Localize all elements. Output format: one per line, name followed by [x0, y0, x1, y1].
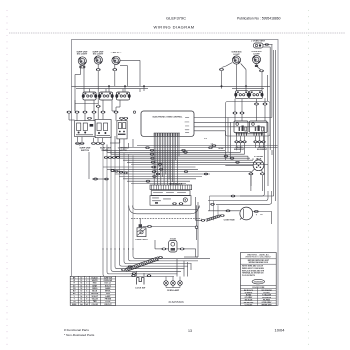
connector ovals above relays	[254, 103, 258, 105]
svg-text:PLUG IN PARTS: PLUG IN PARTS	[242, 274, 256, 277]
wires connector row to blocks	[69, 113, 126, 120]
oven light connector oval	[147, 225, 151, 227]
L1 terminal block	[80, 66, 85, 68]
surface switch S4	[234, 91, 249, 99]
connector oval below L2	[96, 69, 100, 71]
loop wires below door box	[133, 206, 200, 210]
pilot light L2 label	[92, 51, 104, 55]
pilot light L2	[94, 56, 102, 64]
svg-text:BAKE: BAKE	[105, 287, 111, 290]
svg-text:WIRES PRIOR TO DISCONNECT: WIRES PRIOR TO DISCONNECT	[245, 257, 271, 259]
svg-text:COLOR: COLOR	[91, 304, 98, 306]
door lock feeds	[137, 271, 144, 276]
surface switch S3	[115, 92, 130, 100]
connector row P3	[75, 142, 79, 144]
band2 left wire	[196, 219, 202, 221]
connector oval below L3	[113, 69, 117, 71]
svg-text:TERM BLOCK: TERM BLOCK	[169, 183, 183, 185]
node vertical wire	[196, 205, 198, 240]
svg-text:GLEF379C: GLEF379C	[166, 16, 186, 21]
terminal strip box TB2	[151, 191, 190, 196]
L4 right drop wire	[241, 64, 246, 91]
wires switches to relays	[235, 98, 265, 121]
oven light label	[135, 239, 148, 241]
bus junction dots	[108, 85, 223, 87]
wires B3 down	[110, 139, 124, 146]
svg-text:WIRING DIAGRAM 30 IN: WIRING DIAGRAM 30 IN	[249, 261, 269, 264]
probe jack J1	[253, 160, 264, 171]
svg-text:OVEN LIGHT: OVEN LIGHT	[135, 239, 148, 241]
connector oval left of L4	[219, 68, 223, 70]
svg-text:WH/BK-WHT: WH/BK-WHT	[261, 305, 272, 307]
svg-text:10/04: 10/04	[275, 327, 286, 332]
connector row P2	[87, 117, 91, 119]
scan artifact right dotted line	[308, 10, 310, 345]
header separator dashed line	[9, 32, 345, 34]
horizontal run ovals	[131, 275, 135, 277]
wire S2 center	[97, 107, 99, 119]
bus wire B	[76, 88, 264, 90]
pilot light L4 (oven signal)	[232, 56, 240, 64]
svg-text:OVEN LAMP: OVEN LAMP	[167, 289, 180, 292]
motor right vertical stub	[271, 212, 273, 225]
svg-text:4: 4	[86, 284, 87, 287]
connector oval mid (under S2)	[96, 105, 100, 107]
probe jack label	[254, 156, 264, 160]
wire L1 down-left to switch S1	[75, 68, 84, 111]
verticals from P3 into bundle	[103, 136, 120, 158]
wires relays to lower ovals	[237, 136, 264, 141]
svg-text:SIG LIGHT: SIG LIGHT	[77, 54, 88, 56]
svg-text:ELEMENT: ELEMENT	[257, 149, 268, 151]
svg-text:14: 14	[80, 295, 82, 298]
bundle entry ovals	[93, 178, 97, 180]
oven light component	[137, 224, 146, 236]
motor label	[256, 213, 264, 217]
wire L3 down	[114, 65, 116, 87]
svg-text:WIRING DIAGRAM: WIRING DIAGRAM	[154, 25, 195, 30]
connector oval right of L5	[259, 70, 263, 72]
bundle connector ovals cluster	[104, 157, 108, 159]
svg-text:316255306: 316255306	[168, 300, 184, 304]
right bundle horizontal stubs	[265, 122, 269, 191]
relay comb terminals	[236, 133, 264, 136]
switch block B1 (surface unit switch)	[75, 121, 96, 137]
surface switch S5	[248, 91, 263, 99]
bundle bottom curves to horizontals	[103, 248, 210, 277]
thermal fuse TCO	[169, 241, 177, 253]
svg-text:CONV FAN: CONV FAN	[224, 218, 235, 221]
electronic oven control EOC box	[141, 111, 194, 136]
switch feed stubs	[90, 89, 124, 92]
EOC right exit wires	[194, 118, 272, 131]
middle fan horizontal wires	[103, 146, 278, 184]
door lock switch zigzag	[137, 278, 144, 285]
bake relay K1	[234, 121, 248, 133]
relay container outline	[226, 102, 271, 137]
pilot light L1 label	[76, 51, 88, 55]
pilot light L5 label	[251, 51, 261, 55]
pilot light L3	[112, 56, 120, 64]
lamp feed verticals	[177, 257, 198, 277]
S1-S2 link wire	[75, 103, 98, 105]
svg-text:CIRCUIT: CIRCUIT	[104, 304, 112, 306]
svg-text:LOCK SW: LOCK SW	[135, 288, 145, 290]
node circle right of P1	[133, 111, 135, 113]
warning notes box	[241, 253, 277, 307]
bus wire A (L1 feed)	[72, 85, 271, 87]
relay lower connector ovals	[235, 141, 239, 143]
fan right verticals	[225, 118, 253, 187]
switch block B3 (oven selector)	[117, 121, 127, 139]
fan connector ovals	[145, 147, 149, 149]
svg-text:LAMP: LAMP	[105, 295, 111, 298]
EOC connector comb	[154, 132, 180, 134]
extra stub wires	[109, 86, 222, 92]
pilot light L5	[252, 55, 260, 63]
pilot light L3 label	[111, 52, 123, 54]
fuse wires	[155, 240, 196, 257]
wire bundle between blocks and fan area	[89, 139, 133, 179]
broil relay K2	[250, 121, 268, 133]
pilot light L1 (surface unit signal)	[78, 57, 86, 65]
scan artifact left dotted line	[6, 10, 8, 345]
wire L5 down to switch S5	[255, 64, 262, 91]
bus junction dot right	[245, 85, 247, 87]
wires blocks to P3	[76, 137, 103, 146]
wiring legend table	[70, 276, 115, 306]
dashed ground wire	[131, 218, 202, 220]
EOC pin labels right	[185, 116, 189, 119]
surface switch S1	[82, 92, 97, 100]
svg-text:# OVEN VENT: # OVEN VENT	[251, 41, 265, 43]
junction node circle	[195, 226, 198, 229]
svg-text:ELEMENT: ELEMENT	[234, 149, 245, 151]
wire L3 right branch	[120, 60, 140, 86]
extra fan ovals	[158, 163, 162, 165]
band1 end ovals	[121, 269, 125, 271]
oven vent label	[251, 41, 265, 43]
wire stub x127	[120, 66, 127, 87]
svg-text:SWITCH: SWITCH	[81, 150, 90, 152]
svg-text:Publication No : 5995418860: Publication No : 5995418860	[237, 17, 281, 21]
connector row P1	[67, 111, 71, 113]
terminal strip box TB1	[150, 185, 192, 190]
svg-text:# Functional Parts: # Functional Parts	[64, 328, 89, 332]
svg-text:N BK: N BK	[218, 148, 224, 150]
svg-text:* Non-Illustrated Parts: * Non-Illustrated Parts	[64, 333, 95, 337]
wires S1-S3 to connector row	[75, 100, 120, 111]
svg-text:14: 14	[80, 282, 82, 285]
svg-text:ELECTRONIC OVEN CONTROL: ELECTRONIC OVEN CONTROL	[153, 116, 183, 118]
convection fan motor M1	[240, 207, 253, 220]
motor wire ovals	[226, 210, 230, 212]
wire L2 down to bus	[97, 64, 99, 105]
svg-text:316255306: 316255306	[254, 281, 263, 283]
shielded cable band 2	[206, 215, 221, 222]
wires lower ovals into fan	[237, 143, 264, 154]
svg-text:—SIG LT—: —SIG LT—	[111, 52, 123, 54]
surface switch S2	[98, 92, 113, 100]
svg-text:# DLB: # DLB	[170, 238, 177, 240]
svg-text:13: 13	[188, 329, 192, 333]
shielded cable band 1	[126, 257, 160, 272]
right lower verticals	[184, 197, 198, 257]
diagram border frame	[72, 40, 279, 306]
svg-text:GRAY: GRAY	[92, 284, 98, 287]
oven light wires	[140, 218, 195, 227]
fuse connector ovals	[162, 248, 166, 250]
probe jack lower ovals	[249, 173, 253, 175]
fan area tiny labels	[204, 138, 224, 150]
block labels	[79, 148, 129, 152]
motor feed wire	[208, 210, 272, 213]
probe jack wires	[225, 165, 262, 191]
pilot light L4 label	[231, 52, 241, 56]
door switch box	[150, 196, 191, 206]
svg-text:BLACK: BLACK	[92, 276, 99, 279]
svg-text:V-VIOLET: V-VIOLET	[245, 305, 254, 307]
vent wires to right bundle	[263, 44, 273, 47]
switch block B2 (surface unit switch)	[95, 119, 111, 137]
curve ovals	[210, 203, 214, 205]
wire L4 down to switch S4	[222, 63, 237, 92]
oven lamp assembly	[164, 277, 183, 288]
band2 end ovals	[201, 219, 205, 221]
svg-text:SIG LIGHT: SIG LIGHT	[93, 54, 104, 56]
door box lower ovals	[172, 203, 176, 205]
EOC fan-out verticals	[154, 136, 179, 185]
nested wire curves to right bundle	[208, 191, 274, 220]
left wire bundle descending	[103, 148, 133, 250]
element labels	[234, 146, 268, 151]
right edge wire bundle	[267, 45, 275, 202]
oven vent component	[254, 43, 264, 48]
